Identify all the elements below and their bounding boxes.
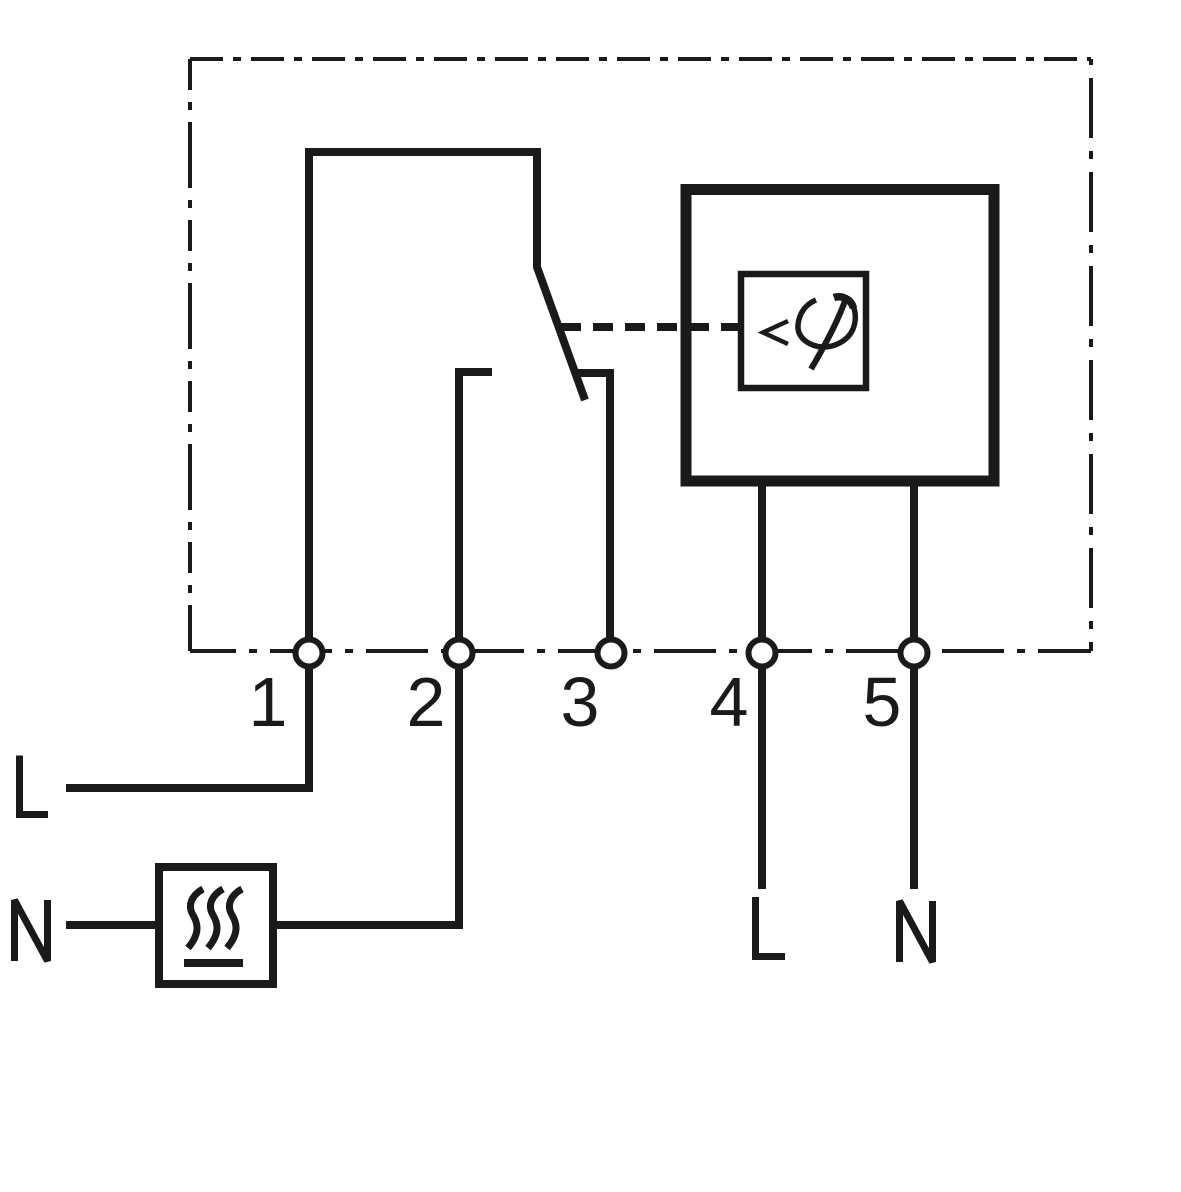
wire terminal 5 down to N supply: [910, 666, 918, 889]
wire terminal 4 down to L supply: [758, 666, 766, 889]
svg-text:2: 2: [407, 663, 446, 741]
label N load: [900, 901, 933, 962]
fixed contact of terminal 2: [459, 372, 492, 641]
wire L input to terminal 1: [66, 666, 309, 788]
heater underline: [184, 959, 243, 967]
enclosure dash-dot border top edge: [190, 57, 1091, 61]
svg-text:3: 3: [561, 663, 600, 741]
wire N input to heater: [66, 921, 156, 929]
humidistat outer box: [686, 190, 994, 482]
svg-text:4: 4: [710, 663, 749, 741]
terminal 1: [296, 640, 323, 667]
heater wavy line 2: [208, 889, 223, 948]
enclosure dash-dot border right edge: [1089, 59, 1093, 651]
terminal 4: [749, 640, 776, 667]
heater box: [159, 867, 273, 984]
heater wavy line 1: [188, 889, 203, 948]
fixed contact of terminal 3: [578, 373, 610, 641]
less-than sign: [763, 321, 788, 344]
terminal 3: [598, 640, 625, 667]
wire heater to terminal 2: [276, 666, 459, 925]
wire sensor to terminal 4: [758, 486, 766, 641]
terminal 5: [901, 640, 928, 667]
wire sensor to terminal 5: [910, 486, 918, 641]
enclosure dash-dot border bottom edge: [190, 649, 1091, 653]
label L load: [756, 897, 786, 957]
svg-text:5: 5: [863, 663, 902, 741]
svg-text:1: 1: [249, 663, 288, 741]
label L input: [20, 756, 49, 815]
terminal 2: [446, 640, 473, 667]
enclosure dash-dot border left edge: [188, 59, 192, 651]
heater wavy line 3: [227, 889, 242, 948]
wire terminal1 up to switch pivot: [309, 152, 585, 641]
humidity setpoint inner box: [741, 274, 866, 388]
label N input: [15, 900, 48, 961]
phi symbol: [798, 296, 855, 369]
dashed control link from switch to humidity sensor: [561, 323, 739, 331]
